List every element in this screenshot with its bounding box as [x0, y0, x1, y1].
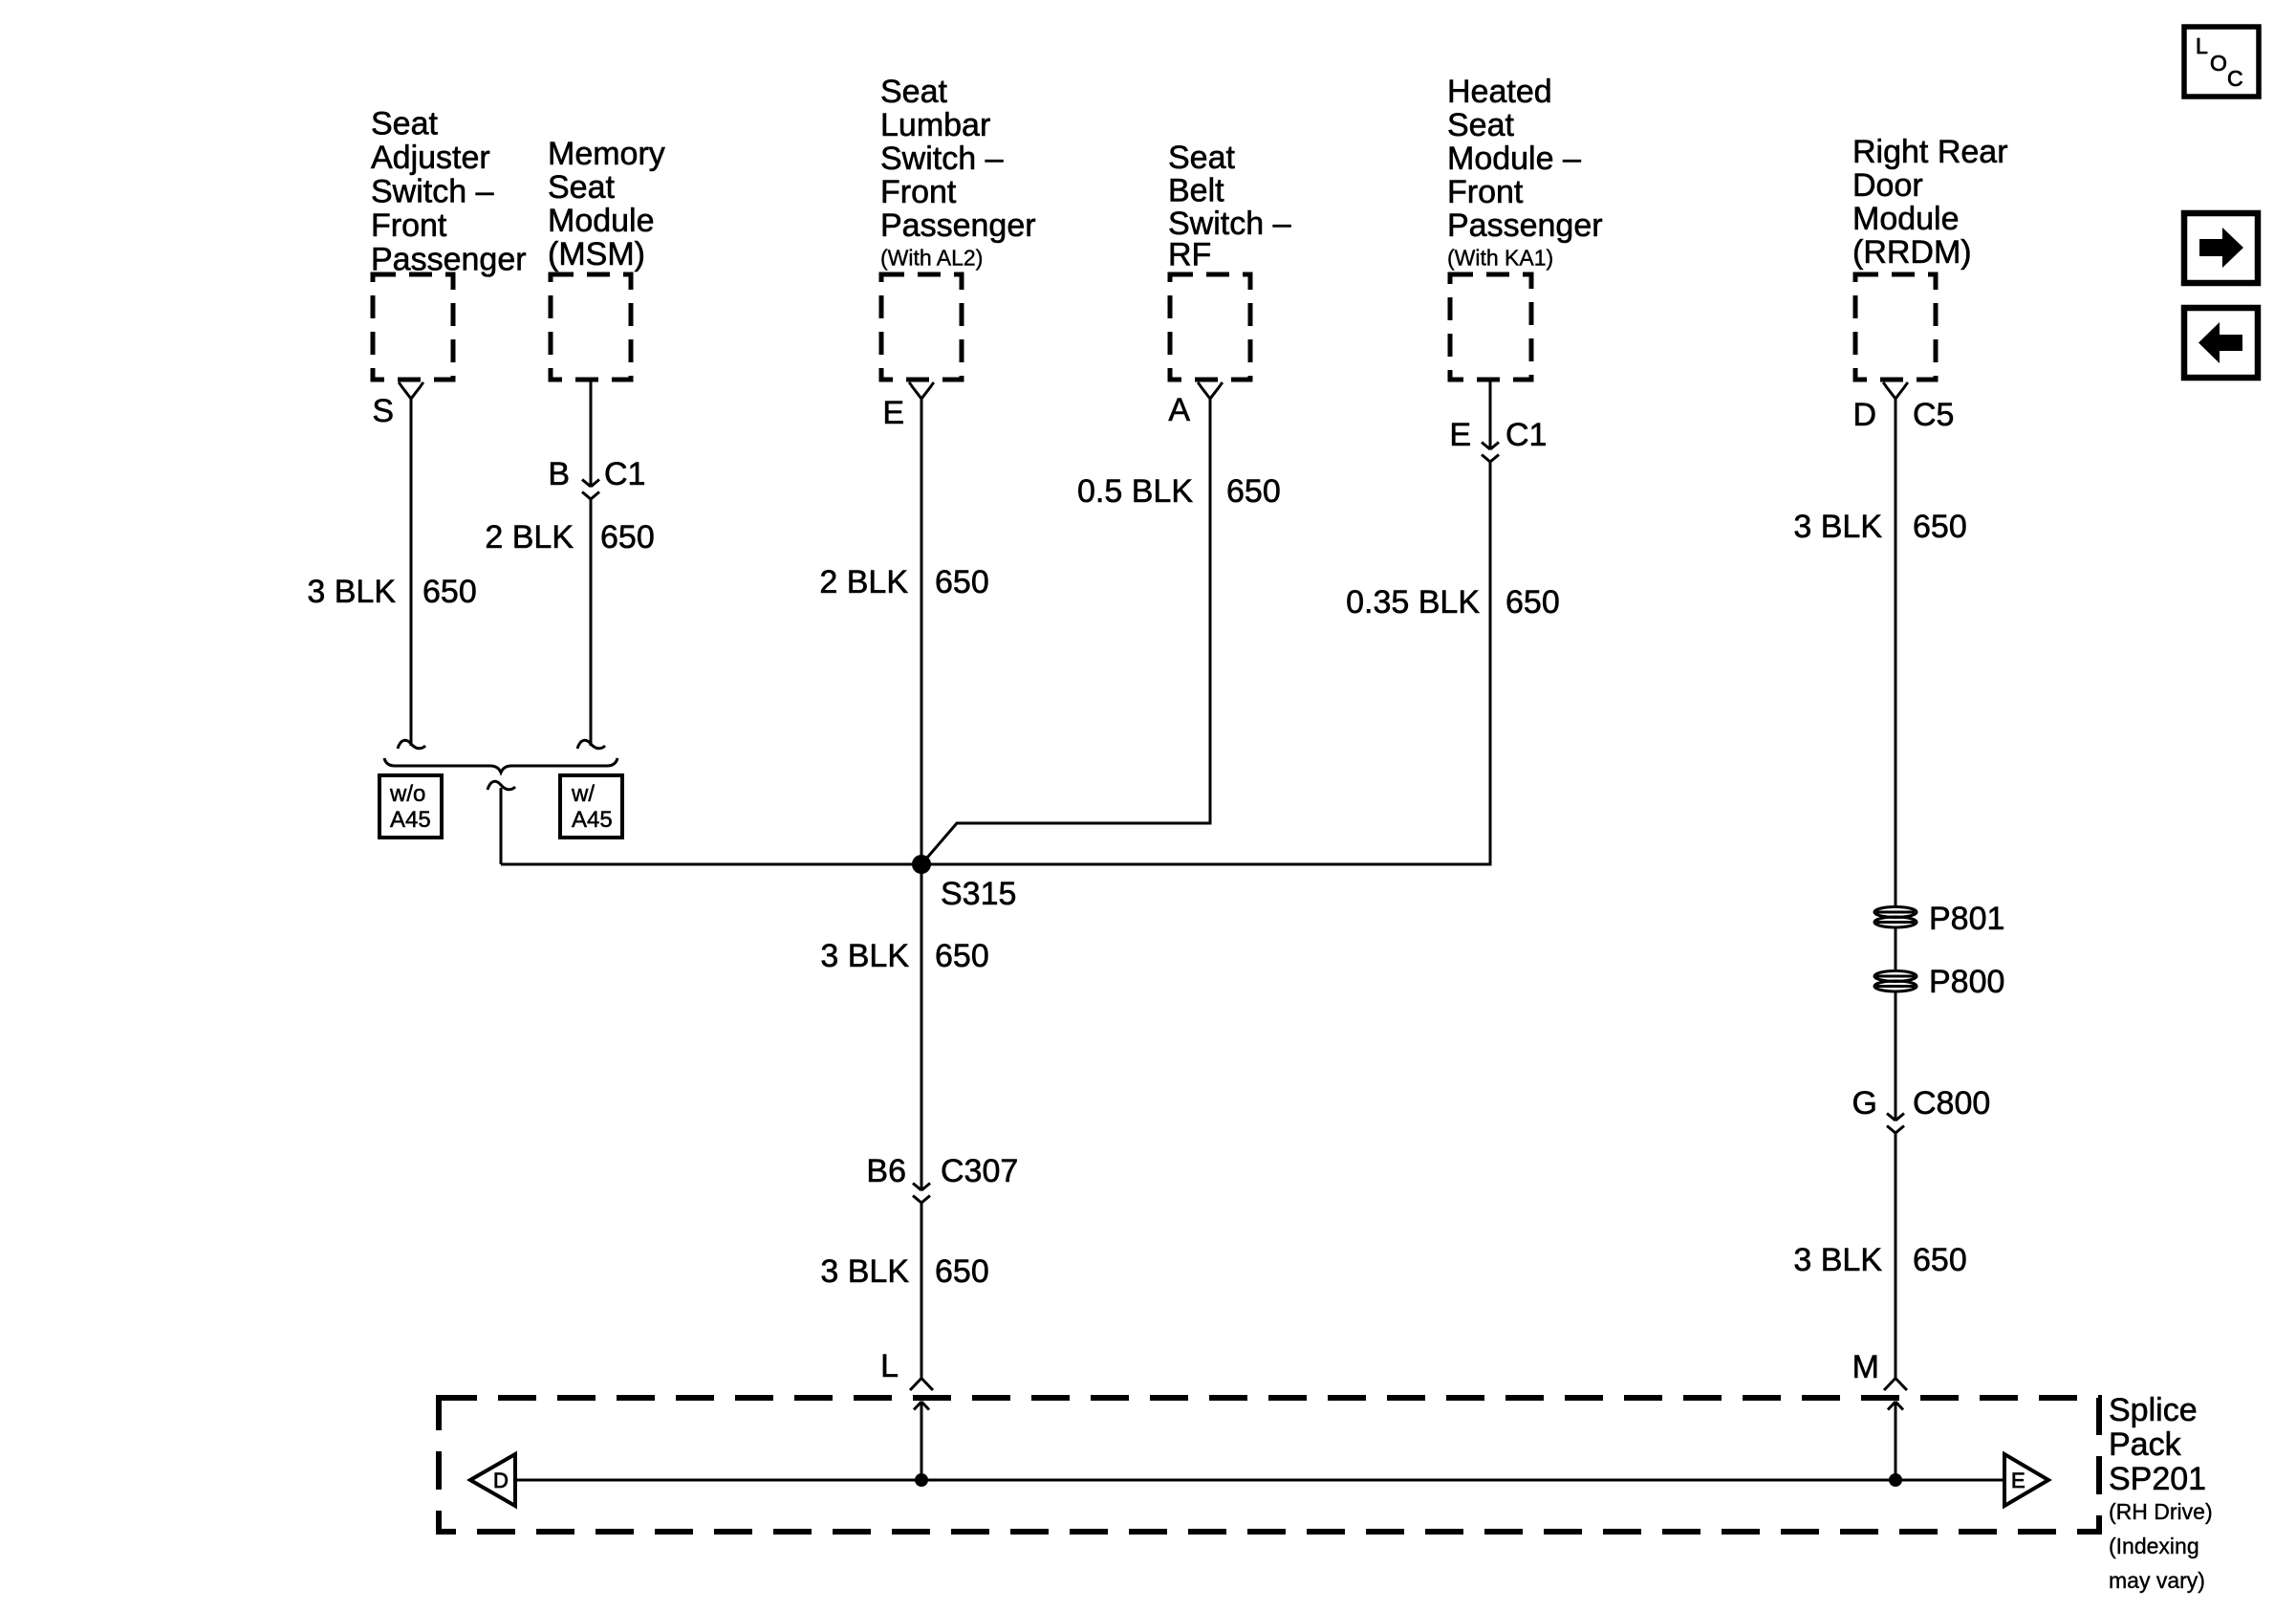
wire from RRDM (3 BLK 650) [1895, 399, 1897, 906]
svg-text:A45: A45 [572, 807, 613, 833]
wire between grommets [1895, 927, 1897, 970]
svg-text:650: 650 [1226, 473, 1281, 510]
svg-text:may vary): may vary) [2109, 1568, 2205, 1593]
svg-text:B6: B6 [866, 1153, 906, 1189]
svg-text:S315: S315 [941, 876, 1016, 912]
connector fork at pin E [909, 382, 934, 399]
option squiggle below brace [487, 781, 515, 790]
up arrow to pin L [914, 1402, 929, 1480]
svg-text:650: 650 [935, 938, 989, 974]
up arrow to pin M [1888, 1402, 1903, 1480]
svg-text:Module: Module [548, 203, 655, 239]
svg-text:L: L [880, 1348, 899, 1384]
in-line connector B6 C307 arrow [913, 1184, 930, 1191]
svg-text:Seat: Seat [880, 74, 947, 110]
wire end hook (option break) [577, 740, 605, 749]
svg-text:(Indexing: (Indexing [2109, 1534, 2199, 1558]
forward arrow box [2184, 213, 2258, 283]
LOC reference box [2184, 27, 2259, 97]
svg-text:Heated: Heated [1447, 74, 1552, 110]
junction dot L leg [915, 1473, 928, 1487]
svg-text:(MSM): (MSM) [548, 236, 645, 272]
option box w/ A45 [560, 775, 622, 838]
wire below C800 to splice pack (3 BLK 650) [1895, 1132, 1897, 1378]
svg-text:Door: Door [1852, 167, 1923, 204]
svg-text:A45: A45 [390, 807, 431, 833]
svg-text:3 BLK: 3 BLK [1793, 509, 1882, 545]
svg-text:w/o: w/o [389, 781, 425, 807]
ground bus horizontal wire to S315 [501, 863, 921, 866]
svg-text:Seat: Seat [1447, 107, 1514, 143]
wire from brace down to ground bus [500, 788, 503, 864]
label Seat Adjuster Switch - Front Passenger [371, 106, 527, 278]
svg-text:P801: P801 [1929, 901, 2004, 937]
option box w/o A45 [379, 775, 442, 838]
component Seat Adjuster Switch dashed box [373, 274, 453, 380]
svg-text:Adjuster: Adjuster [371, 140, 490, 176]
svg-text:Right Rear: Right Rear [1852, 134, 2008, 170]
svg-text:Memory: Memory [548, 136, 665, 172]
svg-text:Front: Front [880, 174, 957, 210]
splice S315 junction dot [912, 855, 931, 874]
svg-text:(RH Drive): (RH Drive) [2109, 1499, 2213, 1524]
svg-text:Splice: Splice [2109, 1392, 2198, 1428]
component Seat Belt Switch dashed box [1170, 274, 1250, 380]
svg-text:(With KA1): (With KA1) [1447, 246, 1553, 271]
svg-text:C: C [2227, 66, 2243, 91]
svg-text:B: B [548, 456, 570, 492]
wire end hook (option break) [398, 740, 425, 749]
connector fork end at pin L [910, 1379, 933, 1391]
label Right Rear Door Module (RRDM) [1852, 134, 2008, 271]
svg-text:3 BLK: 3 BLK [307, 574, 396, 610]
svg-text:Passenger: Passenger [1447, 207, 1603, 244]
svg-text:Lumbar: Lumbar [880, 107, 990, 143]
svg-text:Module –: Module – [1447, 141, 1581, 177]
svg-text:0.5 BLK: 0.5 BLK [1077, 473, 1193, 510]
svg-text:L: L [2196, 33, 2208, 58]
label Memory Seat Module (MSM) [548, 136, 665, 272]
component RRDM dashed box [1855, 274, 1936, 380]
svg-text:G: G [1852, 1085, 1877, 1121]
svg-text:D: D [1852, 397, 1876, 433]
component Heated Seat Module dashed box [1450, 274, 1531, 380]
svg-text:D: D [493, 1469, 509, 1492]
svg-text:E: E [882, 395, 904, 431]
pass-through grommet P801 [1874, 907, 1917, 928]
svg-text:C1: C1 [604, 456, 645, 492]
svg-text:w/: w/ [571, 781, 595, 807]
svg-text:Seat: Seat [371, 106, 438, 142]
splice pack internal bus wire [515, 1479, 2004, 1482]
connector fork at pin D [1883, 382, 1908, 399]
svg-text:Switch –: Switch – [880, 141, 1004, 177]
wire from Seat Adjuster Switch (3 BLK 650) [410, 399, 413, 746]
svg-text:Pack: Pack [2109, 1426, 2182, 1463]
label Heated Seat Module - Front Passenger (With KA1) [1447, 74, 1603, 271]
component Memory Seat Module dashed box [551, 274, 631, 380]
wire from Seat Lumbar Switch (2 BLK 650) [921, 399, 923, 1190]
svg-text:E: E [2011, 1469, 2025, 1492]
wire below C1 to ground bus (0.35 BLK 650) [921, 461, 1490, 864]
terminal triangle E [2004, 1454, 2048, 1506]
in-line connector E C1 arrow [1482, 443, 1499, 450]
label Seat Belt Switch - RF [1168, 140, 1291, 273]
wire from Seat Belt Switch to splice S315 (0.5 BLK 650) [921, 399, 1210, 864]
svg-text:C307: C307 [941, 1153, 1018, 1189]
svg-text:Seat: Seat [1168, 140, 1235, 176]
svg-text:2 BLK: 2 BLK [819, 564, 908, 600]
wire from MSM to connector C1 [590, 380, 593, 487]
svg-text:Passenger: Passenger [880, 207, 1036, 244]
svg-text:Module: Module [1852, 201, 1960, 237]
svg-text:Switch –: Switch – [371, 174, 494, 210]
svg-text:P800: P800 [1929, 964, 2004, 1000]
connector fork at pin A [1198, 382, 1223, 399]
wire from Heated Seat Module to connector C1 [1489, 380, 1492, 449]
wire below C307 to splice pack (3 BLK 650) [921, 1202, 923, 1379]
svg-text:RF: RF [1168, 237, 1211, 273]
svg-text:650: 650 [1505, 584, 1560, 620]
svg-text:C1: C1 [1505, 417, 1547, 453]
svg-text:E: E [1449, 417, 1471, 453]
svg-text:0.35 BLK: 0.35 BLK [1346, 584, 1480, 620]
wire below P800 to connector C800 [1895, 991, 1897, 1121]
label Seat Lumbar Switch - Front Passenger (With AL2) [880, 74, 1036, 271]
Splice Pack SP201 dashed box [439, 1398, 2099, 1532]
svg-text:Belt: Belt [1168, 173, 1224, 209]
svg-text:650: 650 [422, 574, 477, 610]
wire below C1 (2 BLK 650) [590, 498, 593, 746]
svg-text:Front: Front [371, 207, 447, 244]
junction dot M leg [1889, 1473, 1902, 1487]
brace grouping w/o A45 and w/ A45 wires [384, 758, 617, 773]
label Splice Pack SP201 [2109, 1392, 2213, 1593]
in-line connector B C1 arrow [582, 480, 599, 488]
svg-text:S: S [372, 393, 394, 429]
svg-text:650: 650 [935, 1253, 989, 1290]
back arrow box [2184, 308, 2258, 378]
pass-through grommet P800 [1874, 971, 1917, 992]
svg-text:M: M [1852, 1349, 1879, 1385]
svg-text:Seat: Seat [548, 169, 615, 206]
component Seat Lumbar Switch dashed box [881, 274, 962, 380]
svg-text:650: 650 [935, 564, 989, 600]
terminal triangle D [470, 1454, 515, 1506]
svg-text:(RRDM): (RRDM) [1852, 234, 1972, 271]
svg-text:Front: Front [1447, 174, 1524, 210]
svg-text:C800: C800 [1913, 1085, 1990, 1121]
connector fork end at pin M [1884, 1379, 1907, 1391]
connector fork at pin S [399, 382, 423, 399]
svg-text:2 BLK: 2 BLK [485, 519, 574, 555]
svg-text:O: O [2210, 51, 2227, 76]
svg-text:A: A [1168, 392, 1190, 428]
svg-text:650: 650 [600, 519, 655, 555]
svg-text:650: 650 [1913, 1242, 1967, 1278]
svg-text:(With AL2): (With AL2) [880, 246, 983, 271]
svg-text:3 BLK: 3 BLK [1793, 1242, 1882, 1278]
in-line connector G C800 arrow [1887, 1114, 1904, 1121]
svg-text:650: 650 [1913, 509, 1967, 545]
svg-text:C5: C5 [1913, 397, 1954, 433]
svg-text:3 BLK: 3 BLK [820, 938, 909, 974]
svg-text:3 BLK: 3 BLK [820, 1253, 909, 1290]
svg-text:SP201: SP201 [2109, 1461, 2206, 1497]
